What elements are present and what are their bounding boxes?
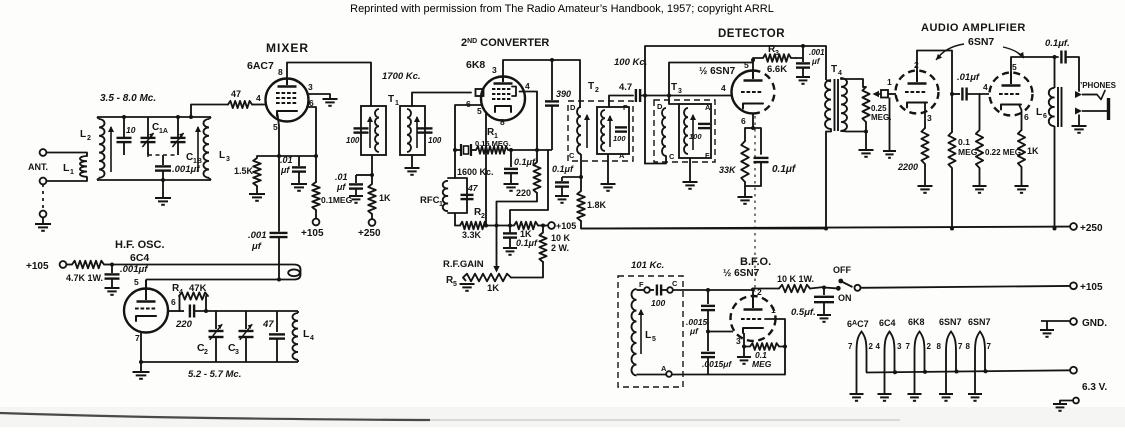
wire R2 node to 1K <box>487 225 514 227</box>
tube V4 plate <box>908 71 927 84</box>
label +250 left <box>358 228 381 239</box>
svg-text:4: 4 <box>179 289 183 296</box>
label L3 <box>219 150 230 163</box>
svg-text:2: 2 <box>869 342 874 351</box>
svg-text:2: 2 <box>204 349 208 356</box>
label C2 <box>197 342 208 356</box>
potentiometer R5 1K <box>463 274 511 282</box>
resistor 0.22MEG <box>976 94 983 168</box>
wire T4 pri bottom <box>826 129 831 229</box>
svg-text:+250: +250 <box>1080 223 1103 234</box>
ground antenna <box>35 224 51 231</box>
tube V5 audio2 envelope <box>990 73 1033 116</box>
label C3 <box>228 342 239 356</box>
svg-text:6.6K: 6.6K <box>767 64 787 75</box>
wire gang line <box>148 152 178 165</box>
capacitor 4.7 <box>636 89 640 102</box>
svg-text:6AC7: 6AC7 <box>247 60 274 72</box>
label 390 <box>556 89 571 99</box>
node GND terminal <box>1070 318 1077 325</box>
tube V3 grids <box>741 91 761 93</box>
wire pin5 drop <box>485 113 487 226</box>
node A terminal <box>666 371 672 377</box>
wire pot left gnd <box>463 278 466 282</box>
svg-text:100 Kc.: 100 Kc. <box>614 57 647 68</box>
heater 6SN7a <box>939 332 956 401</box>
tube V4 grids <box>905 91 925 93</box>
label pin5 osc <box>134 277 139 287</box>
node +250 terminal left <box>369 219 376 226</box>
label ANT. <box>28 162 48 172</box>
junction injection <box>277 278 281 282</box>
label 2ND CONVERTER <box>461 37 549 49</box>
svg-text:.001: .001 <box>248 230 267 241</box>
wire 4.7K to junction <box>104 264 112 266</box>
tube V2 6C4 envelope <box>124 289 168 333</box>
label pin1 bfo <box>771 305 776 315</box>
wire det diode link <box>669 63 752 96</box>
svg-text:220: 220 <box>516 188 531 198</box>
junction bfo cathode <box>742 345 746 349</box>
tube V2 grids <box>135 308 155 310</box>
label 0.1uf T2 <box>552 164 574 174</box>
svg-text:1: 1 <box>771 305 776 315</box>
wire 220 elbow <box>497 193 538 226</box>
capacitor 0.1uf conv <box>504 150 518 184</box>
wire L5 top to F <box>637 289 645 291</box>
heater 6C4 <box>878 332 895 401</box>
heater 6K8 <box>908 332 925 401</box>
label pin6 det <box>741 116 746 126</box>
wire 1K audio gnd <box>1021 167 1023 186</box>
label 100 Kc. <box>614 57 647 68</box>
svg-text:RFC: RFC <box>420 195 440 206</box>
tube U2 plate <box>494 77 513 84</box>
svg-text:6SN7: 6SN7 <box>939 317 962 327</box>
label pin8 mixer <box>278 67 283 77</box>
svg-text:0.1μf: 0.1μf <box>772 164 797 175</box>
svg-text:7: 7 <box>906 342 911 351</box>
junction pin4 node <box>535 148 539 152</box>
label 1K audio <box>1027 146 1039 156</box>
resistor R3 6.6K <box>753 54 796 62</box>
svg-text:7: 7 <box>958 342 963 351</box>
label 0.1MEG bfo <box>752 350 772 369</box>
svg-text:L: L <box>645 329 652 341</box>
label 1600 Kc. <box>457 167 494 177</box>
transformer T2 shield box <box>568 101 633 161</box>
wire 10K to pot <box>511 262 543 278</box>
wire crystal line a <box>453 148 461 152</box>
svg-text:0.1: 0.1 <box>958 137 970 147</box>
tube U2 grids <box>492 89 510 99</box>
label heater 6SN7 b <box>968 317 991 327</box>
label .01uf coupling <box>957 72 980 83</box>
wire 1.8K to B+ <box>581 221 826 229</box>
tube V4 audio1 envelope <box>896 71 939 114</box>
svg-text:4: 4 <box>721 83 726 93</box>
svg-text:6AC7: 6AC7 <box>847 319 869 329</box>
capacitor .0015uf lower <box>701 353 715 374</box>
label 100 T2 <box>613 134 626 143</box>
junction det top <box>801 44 805 48</box>
tube U2 cathode <box>495 106 511 112</box>
tube V2 cathode <box>136 316 156 321</box>
coil T4 secondary <box>841 78 847 131</box>
junction det cathode <box>751 126 755 130</box>
label 1.5K <box>234 166 254 176</box>
label 6SN7 audio <box>968 36 994 48</box>
label pin3 mixer <box>308 82 313 92</box>
capacitor 0.1uf osc2 <box>503 233 517 248</box>
arrow L3 tuning <box>195 126 201 172</box>
label 6C4 <box>130 252 149 264</box>
svg-text:½ 6SN7: ½ 6SN7 <box>699 66 736 77</box>
pin 7 6SN7b <box>987 342 992 351</box>
node +105 conv terminal <box>548 222 555 229</box>
tube U1 plate <box>278 79 297 87</box>
svg-text:MEG: MEG <box>752 359 772 369</box>
svg-text:8: 8 <box>966 342 971 351</box>
wire T1 sec top to 6K8 <box>412 93 471 107</box>
wire ant lower to L1 <box>47 177 88 181</box>
node 6.3V terminal <box>1070 367 1077 374</box>
label pin6 osc <box>171 297 176 307</box>
coil L1 <box>80 156 87 177</box>
label A bfo <box>661 364 667 373</box>
transformer T1 primary box <box>361 106 386 155</box>
header copyright text <box>350 3 774 15</box>
svg-text:1: 1 <box>439 201 443 208</box>
label half 6SN7 det <box>699 66 736 77</box>
svg-text:3: 3 <box>235 349 239 356</box>
resistor 1.8K <box>577 177 585 221</box>
wire audio1 plate <box>917 51 952 133</box>
label 100 T1 sec <box>428 136 442 145</box>
svg-text:1: 1 <box>887 77 892 87</box>
wire osc plate line top <box>112 264 294 266</box>
svg-text:6C4: 6C4 <box>130 252 149 264</box>
coil T1 primary <box>375 109 379 152</box>
ground mixer grid3 <box>323 99 338 106</box>
coil T4 primary <box>825 80 831 129</box>
coil T3 primary <box>662 108 666 156</box>
junction choke top <box>1053 55 1057 59</box>
wire cathode branch2 <box>753 128 761 154</box>
junction screen line <box>314 154 318 158</box>
label pin5 6K8 <box>477 106 482 116</box>
wire pin6 down <box>307 107 316 182</box>
ground .01 T1 <box>349 196 363 203</box>
capacitor 390 <box>545 60 559 150</box>
resistor 1K conv <box>514 222 538 230</box>
pin 7 6AC7 <box>848 342 853 351</box>
label pin4 6K8 <box>525 81 530 91</box>
svg-text:100: 100 <box>651 298 665 308</box>
wire 2200 gnd <box>924 164 926 186</box>
svg-text:6: 6 <box>741 116 746 126</box>
capacitor .01uf T1 <box>349 175 363 196</box>
svg-text:A: A <box>705 103 711 112</box>
ground 0.5uf <box>817 315 831 322</box>
tube V5 plate <box>1002 73 1021 86</box>
arrow L5 tuning <box>638 309 644 354</box>
wire 10K to switch <box>810 287 824 289</box>
label pin3 6K8 <box>492 65 497 75</box>
pin 7 6SN7a <box>958 342 963 351</box>
wire L5 bottom to A <box>637 374 667 376</box>
wire bfo cathode down <box>743 333 745 357</box>
svg-text:0.1MEG: 0.1MEG <box>321 195 353 205</box>
wire osc tank top <box>195 310 298 312</box>
label .001uf injection <box>248 230 267 252</box>
tube V6 cathode <box>743 328 763 333</box>
capacitor .001uf det <box>796 58 810 77</box>
label T3 C <box>669 152 675 161</box>
tube V3 plate <box>744 71 763 81</box>
junction 0.5uf <box>822 286 826 290</box>
wire audio2 cathode <box>1019 105 1022 131</box>
junction audio coupling <box>950 92 954 96</box>
jack sleeve contact <box>1075 108 1107 115</box>
junction osc cathode tank <box>139 360 143 364</box>
wire R3 to top <box>796 46 803 58</box>
wire L3 to grid resistor <box>189 105 228 120</box>
wire det gnd stem <box>744 186 746 197</box>
node F terminal <box>644 287 650 293</box>
wire 47 to pin4 <box>252 104 266 106</box>
label pin4 audio2 <box>983 82 988 92</box>
label T2 C <box>569 151 575 160</box>
svg-text:8: 8 <box>500 117 505 127</box>
resistor 1K audio <box>1018 130 1025 167</box>
capacitor 47 rfc <box>461 195 474 199</box>
coil T3 secondary <box>684 108 688 154</box>
svg-text:10 K: 10 K <box>551 233 571 243</box>
svg-text:AUDIO AMPLIFIER: AUDIO AMPLIFIER <box>921 22 1026 34</box>
wire 0.1MEG to B+ <box>951 168 953 229</box>
ground 0.22MEG <box>973 186 987 193</box>
svg-text:101 Kc.: 101 Kc. <box>631 260 664 271</box>
wire tank top <box>97 116 211 118</box>
label heater 6C4 <box>879 318 896 328</box>
svg-text:Reprinted with permission from: Reprinted with permission from The Radio… <box>350 3 774 15</box>
wire det cathode down <box>752 114 754 129</box>
tube U2 6K8 envelope <box>481 77 525 121</box>
svg-text:.01: .01 <box>335 172 348 182</box>
svg-text:1K: 1K <box>379 193 391 203</box>
junction T4 B+ <box>824 227 828 231</box>
label L5 F <box>639 280 644 289</box>
wire bfo plate line <box>751 288 779 297</box>
label pin6 audio2 <box>1024 112 1029 122</box>
svg-text:μf: μf <box>689 326 699 336</box>
ground jack <box>1072 126 1087 133</box>
arrow to tube2 <box>1003 47 1024 58</box>
capacitor 0.1uf det <box>754 158 769 186</box>
label C1B <box>186 152 202 165</box>
label +105 right <box>1080 282 1103 293</box>
svg-text:A: A <box>661 364 667 373</box>
label 220 conv <box>516 188 531 198</box>
wire ant gnd stem <box>42 217 44 224</box>
junction T2 C <box>579 175 583 179</box>
label C1A <box>152 122 168 135</box>
wire det cath join <box>745 127 753 129</box>
tube V5 grids <box>999 93 1019 95</box>
ground T1 sec <box>405 168 420 175</box>
label 0.25 MEG <box>871 104 891 122</box>
label .0015uf upper <box>686 317 708 336</box>
coil T1 secondary <box>407 109 411 152</box>
wire mixer plate to T1 <box>287 63 371 107</box>
label pin6 6K8 <box>466 99 471 109</box>
wire T2 C drop <box>580 154 582 177</box>
capacitor .001uf injection <box>270 233 288 280</box>
svg-text:5: 5 <box>477 106 482 116</box>
ground bfo cathode <box>737 357 751 364</box>
label +105 mixer <box>301 228 324 239</box>
label pin1 audio1 <box>887 77 892 87</box>
svg-text:2: 2 <box>87 135 91 142</box>
capacitor 220 osc <box>190 305 194 318</box>
svg-text:C: C <box>672 279 678 288</box>
svg-text:T: T <box>671 82 677 93</box>
label R4 <box>172 283 183 296</box>
choke L6 core <box>1058 87 1062 127</box>
label 220 osc <box>175 319 193 330</box>
label 47 rfc <box>467 183 479 193</box>
tube V6 grids <box>741 318 761 320</box>
svg-text:2: 2 <box>595 87 599 94</box>
junction R1 bypass <box>509 148 513 152</box>
wire det filter join <box>745 182 761 186</box>
transformer T1 secondary box <box>400 106 425 155</box>
label +250 right <box>1080 223 1103 234</box>
svg-text:ON: ON <box>838 293 852 303</box>
label RFC1 <box>420 195 443 208</box>
wiper 0.25MEG <box>873 91 882 97</box>
wire coupling line <box>952 93 960 95</box>
wire rfc to R2 <box>454 213 456 226</box>
svg-text:47: 47 <box>231 89 241 99</box>
svg-text:μf: μf <box>811 57 821 66</box>
label L6 <box>1036 107 1047 120</box>
label 0.22MEG <box>985 148 1023 157</box>
resistor 4.7K <box>72 261 104 269</box>
tube V2 plate <box>137 280 156 302</box>
wire 0.1MEG to terminal <box>315 210 317 219</box>
resistor R1 0.15MEG <box>471 146 508 154</box>
junction choke B+ <box>1053 227 1057 231</box>
tube V3 detector envelope <box>732 71 775 114</box>
svg-text:MEG: MEG <box>958 147 978 157</box>
tube V6 bfo envelope <box>731 296 776 341</box>
label L2 <box>80 129 91 142</box>
junction tank bottom <box>161 178 165 182</box>
junction divider mid <box>706 330 710 334</box>
label heater 6K8 <box>908 317 925 327</box>
tube U2 grid cap <box>476 89 484 96</box>
arrow L2 tuning <box>108 126 114 172</box>
svg-text:B.F.O.: B.F.O. <box>740 256 771 268</box>
junction osc supply <box>110 263 114 267</box>
wire osc plate line bottom <box>146 279 294 281</box>
junction T1 plate supply <box>370 173 374 177</box>
junction pin5 gain <box>484 224 488 228</box>
label 100 T3 <box>689 132 702 141</box>
ground osc cathode <box>133 372 150 379</box>
label .0015uf lower <box>702 359 732 369</box>
node ANT terminal lower <box>40 178 47 185</box>
wire ant dashed drop <box>42 184 44 211</box>
tube U1 grids <box>276 93 296 103</box>
label 0.15 MEG. <box>475 139 511 148</box>
capacitor .001uf tank <box>155 166 171 198</box>
label 3.3K <box>462 230 482 240</box>
svg-text:3: 3 <box>736 336 741 346</box>
capacitor 0.1uf out <box>1061 51 1065 64</box>
label PHONES <box>1080 81 1117 90</box>
capacitor 100 T3 <box>698 124 710 128</box>
svg-text:100: 100 <box>428 136 442 145</box>
crystal 1600Kc <box>461 144 471 156</box>
node +250 terminal right <box>1070 223 1077 230</box>
tube V4 cathode <box>907 103 927 108</box>
label pin5 audio2 <box>1012 62 1017 72</box>
svg-text:DETECTOR: DETECTOR <box>718 28 785 40</box>
svg-text:0.1μf.: 0.1μf. <box>1045 38 1070 49</box>
svg-text:10: 10 <box>126 125 136 135</box>
label .01uf mixer <box>280 155 293 175</box>
svg-text:7: 7 <box>848 342 853 351</box>
wire coupling to grid <box>967 93 989 95</box>
node ANT terminal upper <box>40 149 47 156</box>
svg-text:8: 8 <box>937 342 942 351</box>
label 6.3 V. <box>1082 382 1107 393</box>
svg-text:’PHONES: ’PHONES <box>1080 81 1117 90</box>
label 0.1uf out <box>1045 38 1070 49</box>
wire pot bottom <box>865 122 867 150</box>
svg-text:4.7K 1W.: 4.7K 1W. <box>66 273 103 283</box>
wire cathode branch <box>744 128 746 141</box>
svg-text:1: 1 <box>395 100 399 107</box>
wire T3 C link <box>645 156 666 164</box>
label 10K 1W. <box>777 274 814 284</box>
transformer T3 shield box <box>654 100 715 162</box>
junction 4.7 T3 <box>667 94 671 98</box>
wire envelope link det-bfo <box>754 116 756 292</box>
wire T4 sec top <box>841 78 863 87</box>
svg-text:390: 390 <box>556 89 571 99</box>
svg-text:F: F <box>639 280 644 289</box>
junction bypass 105 <box>508 224 512 228</box>
wire T2 F up <box>609 96 633 108</box>
capacitor .0015uf upper <box>701 290 715 351</box>
label 47 grid <box>231 89 241 99</box>
svg-text:47K: 47K <box>189 283 207 294</box>
wire pin4 6K8 <box>520 92 538 151</box>
arrow to tube1 <box>936 44 964 60</box>
label 100 T1 pri <box>346 136 360 145</box>
ground 0.1 osc2 <box>503 248 517 255</box>
svg-text:+105: +105 <box>301 228 324 239</box>
label 47 osc <box>262 319 274 330</box>
svg-text:+105: +105 <box>556 221 576 231</box>
label pin5 mixer <box>273 122 278 132</box>
wire T3 A feed <box>669 96 679 105</box>
node +105 osc terminal <box>60 261 67 268</box>
